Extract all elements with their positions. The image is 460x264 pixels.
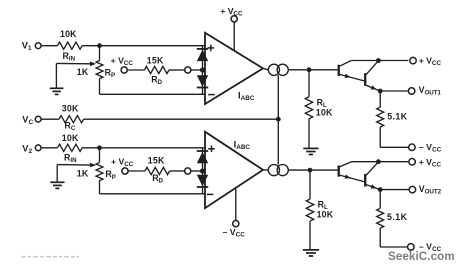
svg-text:30K: 30K — [62, 103, 79, 113]
svg-text:10K: 10K — [317, 209, 334, 219]
svg-text:– V: – V — [419, 142, 432, 152]
svg-text:15K: 15K — [148, 156, 165, 166]
svg-text:10K: 10K — [316, 108, 333, 118]
svg-text:+ V: + V — [111, 55, 124, 65]
svg-text:+ V: + V — [419, 55, 432, 65]
svg-text:+ V: + V — [419, 157, 432, 167]
svg-text:SeekiC.com: SeekiC.com — [388, 250, 455, 263]
svg-text:CC: CC — [236, 232, 246, 239]
svg-text:5.1K: 5.1K — [387, 112, 408, 122]
svg-text:10K: 10K — [60, 29, 77, 39]
svg-text:CC: CC — [124, 161, 134, 168]
svg-text:1K: 1K — [77, 169, 89, 179]
svg-text:CC: CC — [124, 60, 134, 67]
svg-text:– V: – V — [223, 227, 236, 237]
svg-text:+ V: + V — [111, 156, 124, 166]
svg-text:1K: 1K — [77, 67, 89, 77]
svg-text:CC: CC — [432, 60, 442, 67]
svg-text:CC: CC — [432, 147, 442, 154]
svg-text:+ V: + V — [220, 6, 233, 16]
svg-text:10K: 10K — [62, 133, 79, 143]
svg-text:CC: CC — [432, 161, 442, 168]
svg-text:15K: 15K — [147, 55, 164, 65]
svg-text:5.1K: 5.1K — [387, 212, 408, 222]
